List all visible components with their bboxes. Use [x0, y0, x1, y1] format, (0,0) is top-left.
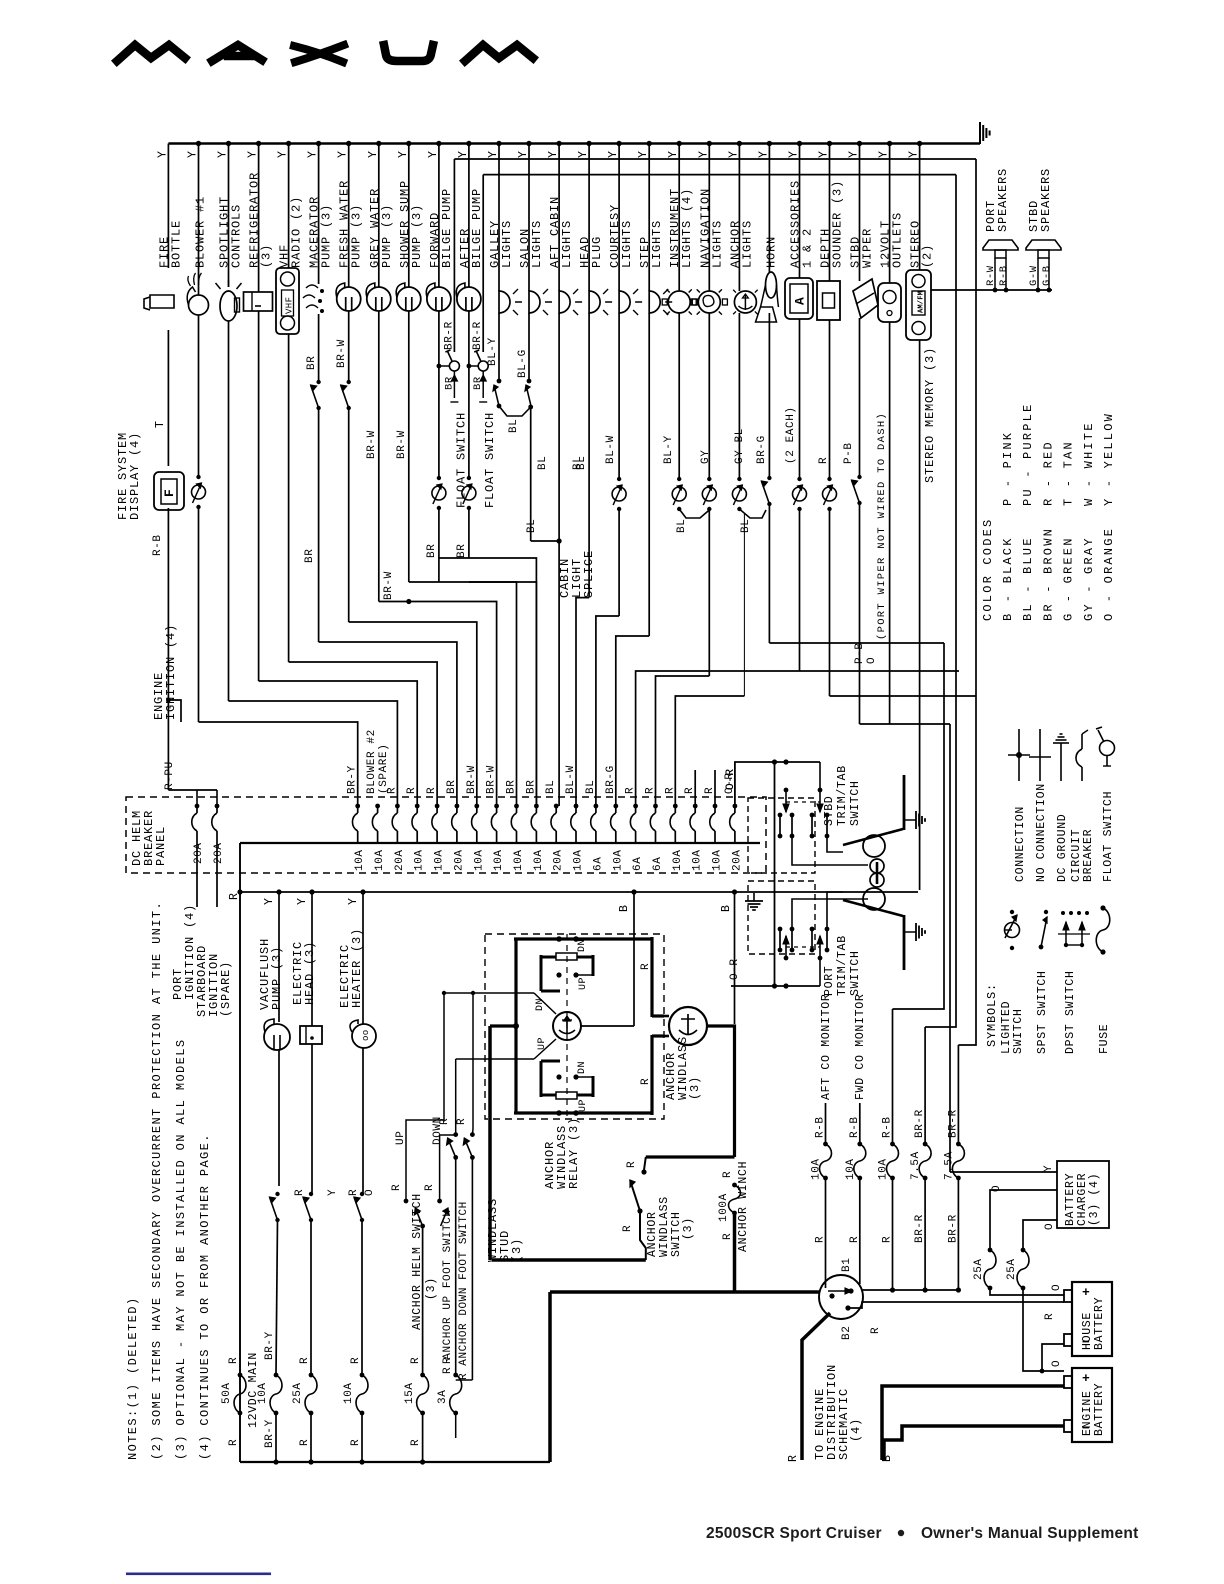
svg-text:R: R	[1044, 1313, 1056, 1320]
wire	[528, 313, 530, 381]
svg-text:W - WHITE: W - WHITE	[1082, 421, 1096, 506]
svg-text:FLOAT SWITCH: FLOAT SWITCH	[1102, 791, 1115, 882]
svg-text:PUMP (3): PUMP (3)	[410, 204, 424, 268]
svg-text:R: R	[350, 1357, 362, 1364]
svg-text:R: R	[294, 1189, 306, 1196]
breaker 10A	[375, 804, 380, 809]
svg-text:Y: Y	[577, 150, 590, 158]
stbd actuator arrows	[784, 788, 789, 793]
svg-text:Owner's Manual Supplement: Owner's Manual Supplement	[921, 1525, 1139, 1542]
svg-text:DN: DN	[577, 939, 588, 952]
svg-text:R: R	[722, 1233, 734, 1240]
wire accessories L	[800, 670, 960, 672]
wire	[892, 1178, 894, 1290]
wire jog	[349, 622, 477, 806]
svg-text:R: R	[410, 1439, 422, 1446]
svg-text:BL-G: BL-G	[517, 349, 529, 378]
svg-text:LIGHTS: LIGHTS	[650, 220, 664, 268]
wire	[892, 1009, 894, 1144]
svg-text:10A: 10A	[712, 849, 724, 871]
svg-text:10A: 10A	[513, 849, 525, 871]
svg-text:BL: BL	[526, 519, 538, 533]
stbd tab blade	[843, 829, 903, 845]
breaker 20A port ign	[196, 790, 198, 806]
fire bottle	[144, 295, 174, 310]
after bilge pump	[457, 287, 481, 311]
thick wire to switch	[733, 1213, 737, 1292]
breaker 10A	[613, 804, 618, 809]
relay thick left bracket	[514, 939, 517, 1113]
svg-text:3A: 3A	[437, 1390, 449, 1404]
fuse 10A	[890, 1142, 895, 1147]
svg-text:BR-R: BR-R	[947, 1109, 959, 1138]
wire	[198, 315, 200, 477]
vacuflush pump	[264, 1024, 290, 1050]
svg-text:2500SCR Sport Cruiser: 2500SCR Sport Cruiser	[706, 1525, 882, 1542]
svg-text:R: R	[410, 1357, 422, 1364]
svg-text:BR - BROWN: BR - BROWN	[1041, 527, 1055, 621]
switch head	[309, 1192, 313, 1196]
svg-text:BL: BL	[740, 519, 752, 533]
wire	[438, 311, 440, 478]
float feed rail	[482, 175, 484, 352]
wire	[258, 311, 260, 681]
svg-text:10A: 10A	[374, 849, 386, 871]
svg-text:R: R	[299, 1439, 311, 1446]
svg-text:50A: 50A	[221, 1382, 233, 1404]
wire	[455, 1413, 457, 1438]
breaker 10A	[474, 804, 479, 809]
svg-text:VHF: VHF	[285, 297, 295, 314]
svg-text:SWITCH: SWITCH	[1012, 1008, 1025, 1054]
lighted switch bilge	[437, 476, 441, 480]
aft cabin lights lamp	[559, 291, 570, 313]
windlass thick wire	[707, 1026, 735, 1157]
rail co monitor	[893, 643, 945, 1009]
svg-text:(3): (3)	[688, 1076, 702, 1100]
wire	[167, 700, 169, 790]
stereo	[906, 270, 931, 340]
wire	[1023, 1288, 1064, 1371]
svg-text:BR-R: BR-R	[443, 321, 455, 350]
svg-text:R: R	[439, 1118, 451, 1125]
svg-text:TRIM/TAB: TRIM/TAB	[836, 765, 849, 826]
relay B wire	[633, 892, 635, 1026]
svg-text:10A: 10A	[672, 849, 684, 871]
wire	[288, 334, 290, 662]
svg-text:6A: 6A	[652, 857, 664, 871]
svg-text:COLOR CODES: COLOR CODES	[981, 518, 995, 621]
wire	[708, 510, 710, 676]
svg-text:P-B: P-B	[854, 642, 866, 664]
wire	[889, 322, 891, 724]
svg-text:R: R	[640, 963, 652, 970]
switch galley	[497, 379, 502, 384]
svg-text:SPST SWITCH: SPST SWITCH	[1036, 970, 1049, 1054]
helm down feed	[439, 1135, 441, 1201]
thick bus windlass	[492, 1258, 646, 1262]
engine battery neg wire	[884, 1426, 1064, 1460]
wire	[167, 508, 169, 700]
legend spst symbol	[1039, 945, 1044, 950]
svg-text:TRIM/TAB: TRIM/TAB	[836, 935, 849, 996]
bus A float feed	[454, 158, 976, 160]
wire	[768, 313, 770, 478]
wire	[348, 311, 350, 383]
svg-text:Y: Y	[327, 1189, 339, 1196]
svg-text:Y: Y	[878, 150, 891, 158]
svg-text:(3): (3)	[682, 1217, 695, 1240]
svg-text:R: R	[625, 787, 637, 794]
switch wiper	[857, 475, 861, 479]
stbd ground	[904, 819, 916, 821]
svg-text:Y: Y	[397, 150, 410, 158]
svg-text:LIGHTS: LIGHTS	[500, 220, 514, 268]
svg-text:DN: DN	[535, 998, 546, 1011]
svg-text:10A: 10A	[473, 849, 485, 871]
svg-text:25A: 25A	[1006, 1258, 1018, 1280]
stbd motor	[863, 835, 885, 857]
svg-text:LIGHTS: LIGHTS	[560, 220, 574, 268]
wire jog	[289, 662, 438, 806]
wire	[362, 1048, 364, 1194]
rail from bus A	[958, 159, 976, 1045]
svg-text:(SPARE): (SPARE)	[378, 744, 390, 794]
switch fresh water	[347, 380, 351, 384]
breaker 20A	[455, 804, 460, 809]
svg-text:BL-W: BL-W	[565, 765, 577, 794]
wire jog	[636, 671, 800, 806]
legend float switch symbol	[1100, 741, 1115, 756]
electric head	[300, 1026, 322, 1044]
svg-text:RELAY (3): RELAY (3)	[567, 1117, 581, 1189]
svg-text:G-W: G-W	[1028, 265, 1040, 286]
svg-text:R: R	[645, 787, 657, 794]
svg-text:AM/FM: AM/FM	[918, 291, 926, 313]
wire jog	[199, 722, 358, 806]
wire	[198, 507, 200, 722]
windlass switch	[641, 1169, 646, 1174]
wire horn L	[769, 642, 944, 644]
svg-text:BATTERY: BATTERY	[1093, 1383, 1106, 1436]
main R feed	[239, 843, 241, 1462]
wire jog	[379, 602, 497, 807]
svg-text:BL-W: BL-W	[605, 435, 617, 464]
breaker 6A	[653, 804, 658, 809]
breaker 10A	[514, 804, 519, 809]
svg-text:UP: UP	[395, 1131, 407, 1145]
VHF radio	[276, 268, 299, 334]
svg-text:T - TAN: T - TAN	[1062, 440, 1076, 506]
switch heater	[360, 1192, 364, 1196]
lighted switch instrument	[677, 477, 681, 481]
svg-text:25A: 25A	[973, 1258, 985, 1280]
battery switch	[819, 1275, 863, 1319]
splice link	[499, 406, 531, 416]
svg-text:R ANCHOR DOWN FOOT SWITCH: R ANCHOR DOWN FOOT SWITCH	[458, 1201, 470, 1380]
charger O wire 1	[990, 1190, 1057, 1250]
svg-text:BR: BR	[472, 376, 484, 390]
svg-text:7.5A: 7.5A	[910, 1151, 922, 1180]
main 12V bus	[168, 142, 980, 144]
port motor	[863, 888, 885, 910]
wire	[311, 892, 313, 1026]
port contact wires	[792, 899, 868, 929]
svg-text:STBD: STBD	[823, 796, 836, 826]
wire	[310, 1220, 312, 1374]
switch macerator	[316, 380, 320, 384]
svg-text:Y: Y	[263, 897, 276, 905]
svg-text:(4): (4)	[849, 1418, 863, 1442]
svg-text:R: R	[350, 1439, 362, 1446]
svg-text:R - RED: R - RED	[1041, 440, 1055, 506]
navigation lights	[698, 291, 720, 313]
relay top contact	[556, 953, 577, 960]
svg-text:BR-W: BR-W	[466, 765, 478, 794]
wire jog	[319, 642, 457, 806]
DC helm breaker panel box	[126, 797, 766, 873]
accessory bus	[240, 891, 918, 893]
svg-text:Y: Y	[187, 150, 200, 158]
macerator pump	[303, 285, 318, 308]
svg-text:R: R	[640, 1078, 652, 1085]
svg-text:LIGHTS: LIGHTS	[710, 220, 724, 268]
svg-text:LIGHTS: LIGHTS	[620, 220, 634, 268]
svg-text:BR-Y: BR-Y	[264, 1419, 276, 1448]
legend circuit breaker symbol	[1081, 734, 1083, 749]
svg-text:B: B	[720, 904, 733, 912]
svg-text:BATTERY: BATTERY	[1093, 1297, 1106, 1350]
wire	[859, 1178, 861, 1284]
depth sounder	[817, 281, 840, 320]
svg-text:10A: 10A	[692, 849, 704, 871]
svg-text:SPEAKERS: SPEAKERS	[1039, 168, 1053, 232]
lighted switch blower	[196, 475, 200, 479]
junction	[406, 599, 411, 604]
svg-text:BR: BR	[426, 544, 438, 558]
svg-text:6A: 6A	[632, 857, 644, 871]
svg-text:20A: 20A	[394, 849, 406, 871]
svg-text:20A: 20A	[731, 849, 743, 871]
svg-text:DISPLAY (4): DISPLAY (4)	[128, 432, 142, 520]
svg-text:BR-R: BR-R	[914, 1109, 926, 1138]
svg-text:Y: Y	[277, 150, 290, 158]
svg-text:O: O	[866, 657, 878, 664]
svg-text:PUMP (3): PUMP (3)	[380, 204, 394, 268]
wire 12v L	[890, 723, 950, 725]
svg-text:FWD CO MONITOR: FWD CO MONITOR	[854, 994, 867, 1100]
wire	[957, 1178, 959, 1290]
svg-text:BR-W: BR-W	[336, 339, 348, 368]
svg-text:G - GREEN: G - GREEN	[1062, 536, 1076, 621]
head plug lamp	[589, 291, 600, 313]
lighted switch anchor	[737, 477, 741, 481]
svg-text:20A: 20A	[453, 849, 465, 871]
fuse 7.5A	[923, 1142, 928, 1147]
svg-text:Y: Y	[487, 150, 500, 158]
wire jog	[469, 582, 537, 806]
svg-text:10A: 10A	[434, 849, 446, 871]
svg-text:BL-Y: BL-Y	[663, 435, 675, 464]
svg-text:R: R	[456, 1118, 468, 1125]
wire switch to house battery	[848, 1302, 1064, 1308]
svg-text:P-B: P-B	[843, 442, 855, 464]
wire	[348, 408, 350, 622]
switch vacuflush	[275, 1192, 279, 1196]
svg-text:BL: BL	[508, 419, 520, 433]
svg-text:R-B: R-B	[882, 1116, 894, 1138]
svg-text:BILGE PUMP: BILGE PUMP	[440, 188, 454, 268]
svg-text:R: R	[426, 787, 438, 794]
foot down drop	[471, 1157, 473, 1380]
svg-text:LIGHTS: LIGHTS	[740, 220, 754, 268]
svg-text:BR-W: BR-W	[366, 430, 378, 459]
svg-text:10A: 10A	[493, 849, 505, 871]
svg-text:R-B: R-B	[998, 265, 1010, 286]
wire switch to fuses	[862, 1289, 958, 1291]
svg-text:R: R	[424, 1184, 436, 1191]
wire	[738, 313, 740, 479]
foot up drop	[455, 1157, 457, 1375]
wire	[422, 1413, 424, 1462]
port trim tab box	[748, 881, 815, 954]
svg-text:R-W: R-W	[985, 265, 997, 286]
wire	[239, 1413, 241, 1462]
breaker 20A	[395, 804, 400, 809]
grey water pump	[367, 287, 391, 311]
svg-text:100A: 100A	[718, 1193, 730, 1222]
svg-text:(SPARE): (SPARE)	[219, 961, 233, 1017]
svg-text:Y: Y	[1043, 1165, 1055, 1172]
wire	[859, 1103, 861, 1144]
svg-text:6A: 6A	[592, 857, 604, 871]
svg-text:R: R	[406, 787, 418, 794]
wire	[311, 1044, 313, 1194]
stbd contact wires	[792, 836, 868, 865]
fuse 3A	[453, 1373, 458, 1378]
svg-text:(3): (3)	[425, 1277, 438, 1300]
svg-text:HEAD (3): HEAD (3)	[303, 941, 317, 1005]
engine battery pos wire	[882, 1386, 1064, 1460]
svg-text:A: A	[793, 297, 808, 305]
breaker 10A	[574, 804, 579, 809]
svg-text:B2: B2	[841, 1326, 853, 1340]
lighted switch navigation	[707, 477, 711, 481]
wire	[361, 1413, 363, 1462]
svg-text:R: R	[442, 1357, 454, 1364]
svg-text:Y: Y	[788, 150, 801, 158]
svg-text:10A: 10A	[811, 1158, 823, 1180]
svg-text:B1: B1	[841, 1258, 853, 1272]
wire jog	[259, 681, 418, 806]
bus B float feed	[483, 174, 956, 176]
svg-text:B: B	[881, 1454, 894, 1462]
svg-text:WIPER: WIPER	[861, 228, 875, 268]
svg-text:20A: 20A	[193, 842, 205, 864]
salon lights lamp	[529, 291, 540, 313]
wire	[743, 514, 745, 696]
wire depth L	[830, 695, 977, 697]
svg-text:BR: BR	[456, 544, 468, 558]
wire stub	[694, 770, 696, 806]
svg-text:Y: Y	[727, 150, 740, 158]
svg-text:Y: Y	[367, 150, 380, 158]
breaker 20A	[554, 804, 559, 809]
relay control wires	[444, 992, 534, 994]
svg-text:Y: Y	[247, 150, 260, 158]
wire	[924, 1027, 926, 1144]
breaker 10A	[435, 804, 440, 809]
fuse 15A	[420, 1373, 425, 1378]
svg-text:Y: Y	[667, 150, 680, 158]
svg-text:10A: 10A	[533, 849, 545, 871]
step lights lamp	[649, 291, 660, 313]
instrument lights	[668, 291, 690, 313]
wire wiper L	[860, 723, 951, 725]
svg-text:ANCHOR HELM SWITCH: ANCHOR HELM SWITCH	[411, 1193, 424, 1330]
wire	[422, 1226, 424, 1375]
trim feed left rail	[774, 762, 776, 986]
spotlight	[220, 291, 237, 321]
wire jog	[229, 701, 398, 806]
svg-text:O: O	[1044, 1223, 1056, 1230]
wire	[468, 311, 470, 478]
stereo memory wire	[919, 340, 921, 890]
breaker 20A stbd ign	[216, 790, 218, 806]
wire	[278, 1050, 280, 1186]
svg-text:BL: BL	[537, 456, 549, 470]
stbd wiper	[853, 279, 878, 318]
svg-text:Y: Y	[347, 897, 360, 905]
breaker 20A	[733, 804, 738, 809]
svg-text:Y: Y	[337, 150, 350, 158]
svg-text:B - BLACK: B - BLACK	[1001, 536, 1015, 621]
svg-text:R: R	[228, 1439, 240, 1446]
thick wire battery feed	[735, 1290, 821, 1294]
svg-text:Y: Y	[296, 897, 309, 905]
switch salon	[527, 379, 532, 384]
accessories 1 and 2	[785, 278, 813, 319]
fresh water pump	[337, 287, 361, 311]
svg-text:BR: BR	[306, 356, 318, 370]
thick wire B2 to engine distribution	[802, 1313, 830, 1460]
breaker 10A	[355, 804, 360, 809]
breaker 10A	[713, 804, 718, 809]
forward bilge pump	[427, 287, 451, 311]
stereo to speakers wire	[931, 289, 1052, 291]
engine ignition stub	[168, 700, 181, 722]
svg-text:FUSE: FUSE	[1098, 1024, 1111, 1054]
legend lighted switch symbol	[1005, 923, 1020, 938]
port actuator arrows	[784, 956, 789, 961]
electric heater	[352, 1024, 376, 1048]
svg-text:R: R	[684, 787, 696, 794]
breaker 10A	[415, 804, 420, 809]
svg-text:BR-Y: BR-Y	[264, 1331, 276, 1360]
svg-text:PLUG: PLUG	[590, 236, 604, 268]
relay thick right bracket	[594, 937, 652, 940]
legend dc ground symbol	[1060, 743, 1062, 781]
wire	[167, 330, 169, 466]
svg-text:Y: Y	[156, 150, 169, 158]
svg-text:UP: UP	[578, 977, 589, 990]
svg-text:DC GROUND: DC GROUND	[1056, 814, 1069, 882]
legend no connection symbol	[1039, 729, 1041, 781]
breaker 10A	[693, 804, 698, 809]
svg-text:GY: GY	[700, 450, 712, 464]
wire jog	[675, 696, 744, 806]
svg-text:UP: UP	[537, 1037, 548, 1050]
